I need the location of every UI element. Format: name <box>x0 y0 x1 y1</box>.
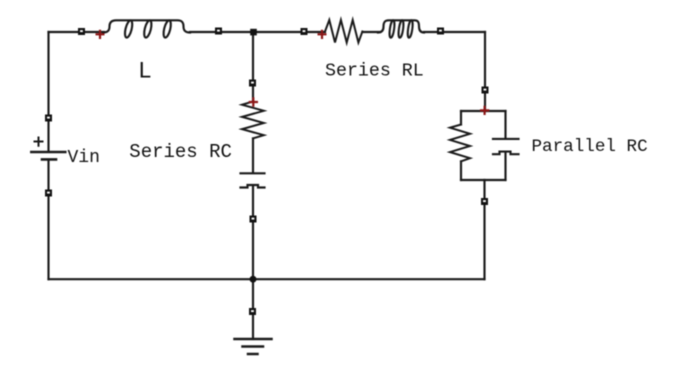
svg-text:Series RL: Series RL <box>325 62 424 82</box>
battery Vin top plate <box>31 151 65 154</box>
capacitor C series RC top plate <box>241 172 265 174</box>
pin marker plus RL <box>318 30 327 39</box>
terminal square ground <box>249 308 256 315</box>
wire top-left horizontal <box>49 31 105 33</box>
wire R to L2 <box>362 31 379 33</box>
pin marker plus parallel RC <box>480 106 489 115</box>
ground bar 2 <box>243 345 264 348</box>
pin marker plus series RC <box>249 97 258 106</box>
capacitor C parallel RC bottom lead <box>504 153 506 180</box>
wire junction to Series RL <box>253 31 325 33</box>
junction solid square <box>250 29 257 36</box>
wire left vertical lower <box>47 160 49 279</box>
svg-text:Series RC: Series RC <box>129 141 232 163</box>
wire parallel box bottom lead <box>483 180 485 279</box>
battery Vin plus label <box>35 138 43 146</box>
resistor R series RC <box>242 102 264 139</box>
terminal square L right <box>215 28 222 35</box>
resistor R series RL <box>325 20 362 43</box>
terminal square RL left <box>301 28 308 35</box>
terminal square series RC top <box>249 80 256 87</box>
capacitor C series RC bottom plate <box>241 185 265 188</box>
wire parallel box bottom <box>461 179 506 181</box>
pin marker plus L <box>96 30 105 39</box>
battery Vin bottom plate <box>42 158 56 161</box>
wire parallel box left upper lead <box>460 111 462 125</box>
terminal square Vin bottom <box>45 190 52 197</box>
terminal square parallel RC bottom <box>481 198 488 205</box>
resistor R parallel RC <box>450 125 470 162</box>
wire ground stem <box>252 279 254 339</box>
wire bottom bus <box>49 278 485 280</box>
wire parallel box top <box>461 110 506 112</box>
inductor L <box>103 20 190 39</box>
wire right vertical <box>484 32 486 111</box>
svg-text:Parallel RC: Parallel RC <box>532 137 648 157</box>
wire middle branch upper <box>252 32 254 102</box>
ground bar 1 <box>235 338 272 341</box>
ground bar 3 <box>248 353 258 356</box>
capacitor C parallel RC top plate <box>493 138 519 140</box>
svg-text:L: L <box>138 59 152 85</box>
terminal square RL right <box>437 28 444 35</box>
capacitor C series RC bottom lead <box>252 186 254 279</box>
terminal square right vertical <box>482 87 489 94</box>
wire L2 to corner <box>424 31 485 33</box>
terminal square series RC bottom <box>250 216 257 223</box>
capacitor C parallel RC top lead <box>504 111 506 138</box>
terminal square Vin top <box>45 115 52 122</box>
svg-text:Vin: Vin <box>68 148 100 168</box>
wire R to C series RC <box>252 138 254 172</box>
inductor L2 series RL <box>378 20 424 38</box>
wire L to junction <box>190 31 253 33</box>
wire left vertical upper <box>47 32 49 151</box>
terminal square L left <box>78 28 85 35</box>
junction dot <box>250 276 257 283</box>
wire parallel box left lower lead <box>460 161 462 180</box>
capacitor C parallel RC bottom plate <box>493 152 519 155</box>
